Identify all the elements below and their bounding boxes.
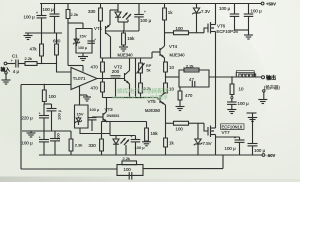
- zener box 15V top: [73, 29, 96, 54]
- svg-text:+: +: [11, 59, 13, 63]
- capacitor 220u: [22, 104, 50, 131]
- wire output node left: [165, 76, 179, 77]
- svg-text:15V: 15V: [77, 111, 84, 116]
- wire zener box bottom: [80, 128, 110, 134]
- svg-text:+50V: +50V: [266, 2, 276, 7]
- capacitor 100u lower-left: [22, 131, 50, 155]
- wire driver bus y58: [101, 57, 153, 59]
- bottom scan smudge: [0, 177, 170, 183]
- resistor 10 lower: [164, 77, 175, 93]
- wire lower tie bus: [102, 121, 147, 136]
- svg-text:330: 330: [89, 143, 97, 148]
- svg-text:ECF10N16: ECF10N16: [222, 125, 243, 130]
- svg-text:100 μ: 100 μ: [90, 108, 100, 112]
- svg-text:100 μ: 100 μ: [78, 46, 87, 50]
- resistor 1k top: [163, 4, 174, 47]
- transistor VT3: [92, 98, 119, 123]
- transistor VT2: [114, 58, 130, 98]
- op-amp U1 TL071: [71, 68, 97, 90]
- resistor 1k bottom: [164, 138, 175, 155]
- wire input node: [37, 63, 57, 64]
- zener 7.5V: [194, 123, 212, 155]
- diode D3: [113, 136, 119, 156]
- inductor L1: [236, 71, 255, 77]
- label MJE340 VT2: [118, 53, 134, 58]
- resistor 2.2k VAS: [139, 83, 151, 98]
- ground neg caps bracket: [247, 113, 258, 129]
- wire lower feedback line: [21, 155, 223, 169]
- capacitor feedback: [129, 172, 132, 180]
- capacitor 100u rail B: [244, 4, 262, 31]
- svg-text:5k: 5k: [147, 68, 151, 72]
- terminal input: [4, 62, 15, 65]
- svg-text:10: 10: [169, 65, 174, 70]
- resistor 10 upper: [164, 62, 175, 77]
- svg-text:680: 680: [53, 39, 61, 44]
- wire rail drop left: [41, 4, 43, 16]
- svg-text:220 μ: 220 μ: [22, 115, 34, 120]
- wire VT5 emitter chain: [165, 93, 167, 138]
- resistor 2.2k feedback: [122, 156, 137, 165]
- resistor 470 zobel: [178, 87, 193, 107]
- resistor 2.2k supply dropper: [66, 4, 83, 72]
- svg-text:+: +: [36, 11, 38, 15]
- transistor VT5: [145, 93, 166, 113]
- svg-text:100: 100: [49, 94, 57, 99]
- svg-text:+: +: [234, 136, 236, 140]
- svg-text:2.2k: 2.2k: [186, 63, 194, 68]
- svg-text:TL071: TL071: [73, 76, 86, 81]
- svg-text:2.3k: 2.3k: [75, 143, 83, 148]
- capacitor zobel: [192, 81, 195, 88]
- capacitor 100u neg B: [248, 129, 266, 156]
- resistor 470 lower: [91, 79, 105, 98]
- wire op-amp V- pin: [79, 86, 81, 105]
- svg-text:100 μ: 100 μ: [251, 8, 263, 13]
- resistor 330 top: [88, 4, 102, 59]
- ground op-amp V-: [80, 95, 92, 101]
- svg-text:15k: 15k: [127, 36, 135, 41]
- capacitor 100 lower-left-2: [50, 131, 61, 155]
- ground op-amp V+: [78, 53, 88, 61]
- svg-text:100: 100: [56, 133, 61, 140]
- ground under 15k: [119, 45, 128, 51]
- wire diode bottom bus: [118, 22, 128, 31]
- svg-text:1k: 1k: [169, 140, 174, 145]
- ground under 15k bottom: [142, 141, 151, 146]
- capacitor 100u mid: [47, 104, 62, 131]
- svg-text:15k: 15k: [151, 131, 159, 136]
- capacitor 200: [111, 69, 121, 97]
- resistor 680: [53, 33, 61, 64]
- zener box 15V bottom: [75, 105, 89, 128]
- capacitor 100u rail A: [219, 4, 239, 31]
- svg-text:+: +: [94, 37, 96, 41]
- svg-text:100 μ: 100 μ: [219, 6, 231, 11]
- svg-text:7.3V: 7.3V: [201, 9, 210, 14]
- svg-text:100 μ: 100 μ: [238, 101, 250, 106]
- mosfet VT6 ECF10P16: [197, 4, 239, 78]
- wire op-amp output: [97, 78, 125, 79]
- svg-text:2N5551: 2N5551: [107, 114, 120, 118]
- resistor 15k bottom: [145, 122, 159, 142]
- wire mid vertical: [135, 58, 137, 98]
- capacitor 100u neg A: [225, 136, 245, 155]
- ground rail caps: [235, 30, 254, 39]
- label input 输入: [1, 66, 11, 73]
- svg-text:15V: 15V: [80, 33, 87, 38]
- resistor 2.3k: [69, 131, 82, 155]
- svg-text:100 μ: 100 μ: [140, 18, 152, 23]
- terminal +50V: [261, 2, 264, 5]
- wire ground bus mid-left: [22, 130, 71, 132]
- svg-text:+: +: [39, 111, 41, 115]
- capacitor 100u output zobel: [227, 99, 249, 110]
- wire diode top bus: [110, 9, 118, 11]
- node output zobel: [231, 95, 233, 99]
- svg-text:2.2k: 2.2k: [71, 12, 79, 17]
- svg-text:VT7: VT7: [222, 130, 231, 135]
- svg-text:2.2k: 2.2k: [25, 56, 33, 61]
- svg-text:WWW.DZSC.COM 维库配单: WWW.DZSC.COM 维库配单: [112, 94, 168, 101]
- svg-text:+: +: [131, 135, 133, 139]
- capacitor 100u VT3 base: [88, 108, 100, 131]
- label 输出: [266, 74, 276, 81]
- svg-text:100 μ: 100 μ: [24, 15, 36, 20]
- svg-text:VT1: VT1: [94, 26, 103, 31]
- capacitor 100u bottom: [131, 135, 146, 155]
- diode D2 arrows: [123, 13, 132, 23]
- svg-text:100 μ: 100 μ: [135, 145, 146, 150]
- svg-text:7.5V: 7.5V: [203, 141, 212, 146]
- svg-text:100: 100: [176, 26, 184, 31]
- svg-text:100 μ: 100 μ: [43, 7, 55, 12]
- label 扬声器: [264, 84, 280, 91]
- resistor 470 upper: [91, 58, 105, 79]
- svg-text:10: 10: [169, 86, 174, 91]
- feedback box 100: [117, 165, 143, 176]
- resistor 47k: [30, 33, 44, 64]
- wire op-amp noninv input: [57, 64, 72, 73]
- svg-text:470: 470: [91, 65, 99, 70]
- resistor 15k top: [122, 31, 136, 45]
- svg-text:-50V: -50V: [267, 153, 276, 158]
- ground output zobel: [227, 110, 236, 114]
- ground zobel: [176, 107, 185, 111]
- wire +50V top rail: [40, 3, 261, 5]
- resistor 100 top gate: [165, 26, 197, 35]
- label 47: [189, 77, 194, 82]
- svg-text:470: 470: [91, 86, 99, 91]
- terminal output: [262, 76, 265, 79]
- svg-text:RP: RP: [146, 64, 152, 68]
- svg-text:1k: 1k: [168, 10, 173, 15]
- label +50V: [266, 2, 276, 7]
- svg-text:100 μ: 100 μ: [22, 141, 34, 146]
- resistor 2.2k zobel: [184, 63, 199, 72]
- svg-text:VT2: VT2: [114, 64, 123, 69]
- ground mid-left: [27, 131, 36, 137]
- svg-text:47k: 47k: [30, 47, 38, 52]
- svg-text:47: 47: [189, 77, 194, 82]
- transistor VT1: [94, 10, 139, 58]
- terminal -50V: [262, 154, 265, 157]
- potentiometer RP 5k: [137, 58, 152, 83]
- wire left feedback border: [20, 85, 22, 170]
- svg-text:100 μ: 100 μ: [254, 148, 266, 153]
- svg-text:100 μ: 100 μ: [225, 146, 237, 151]
- capacitor C3 100u: [43, 4, 60, 34]
- svg-text:MJE340: MJE340: [118, 53, 134, 58]
- watermark green: [112, 87, 169, 101]
- central paper tint: [0, 0, 268, 197]
- wire output line: [209, 76, 262, 77]
- zobel box: [179, 70, 209, 87]
- svg-text:MJE350: MJE350: [145, 108, 161, 113]
- wire ground bus top-left: [25, 32, 62, 34]
- wire cap tops: [44, 103, 51, 105]
- capacitor C2 100u: [24, 11, 47, 33]
- svg-text:+: +: [39, 135, 41, 139]
- resistor 100 bottom gate: [166, 121, 205, 131]
- terminal output return: [258, 90, 267, 104]
- svg-text:C1: C1: [12, 54, 18, 59]
- svg-text:+: +: [144, 10, 146, 14]
- wire VAS bus y97.5: [103, 97, 159, 98]
- svg-text:维库电子市场网配单: 维库电子市场网配单: [117, 87, 169, 95]
- resistor 100 feedback: [42, 84, 56, 104]
- svg-text:VT4: VT4: [169, 44, 178, 49]
- resistor 2.2k input: [25, 56, 38, 65]
- capacitor 100u VT1: [134, 4, 151, 32]
- svg-text:输出: 输出: [266, 74, 276, 81]
- ground top-left: [24, 33, 33, 40]
- svg-text:(扬声器): (扬声器): [264, 84, 280, 91]
- zener 7.3V: [192, 4, 210, 33]
- svg-text:10: 10: [239, 87, 244, 92]
- resistor 10 output zobel: [230, 77, 244, 95]
- diode D4 arrows: [121, 138, 130, 155]
- mosfet VT7 ECF10N16: [204, 77, 244, 155]
- wire -50V rail: [39, 154, 262, 156]
- svg-text:330: 330: [88, 9, 96, 14]
- svg-text:100: 100: [124, 167, 132, 172]
- svg-text:4 μ: 4 μ: [13, 69, 20, 74]
- label -50V: [267, 153, 276, 158]
- svg-text:100: 100: [176, 127, 184, 132]
- wire op-amp inv input: [21, 84, 71, 86]
- svg-text:200: 200: [112, 69, 120, 74]
- svg-text:MJE340: MJE340: [170, 52, 186, 57]
- diode D1: [115, 4, 121, 23]
- resistor 330 bottom: [89, 122, 104, 156]
- svg-text:470: 470: [185, 93, 193, 98]
- transistor VT4: [152, 44, 185, 62]
- terminal input return + ground: [2, 72, 11, 84]
- svg-text:100 μ: 100 μ: [57, 109, 62, 120]
- capacitor C1 4u: [11, 54, 25, 75]
- svg-text:VT3: VT3: [105, 107, 114, 112]
- svg-text:VT6: VT6: [217, 23, 226, 28]
- svg-text:2.2k: 2.2k: [123, 156, 131, 161]
